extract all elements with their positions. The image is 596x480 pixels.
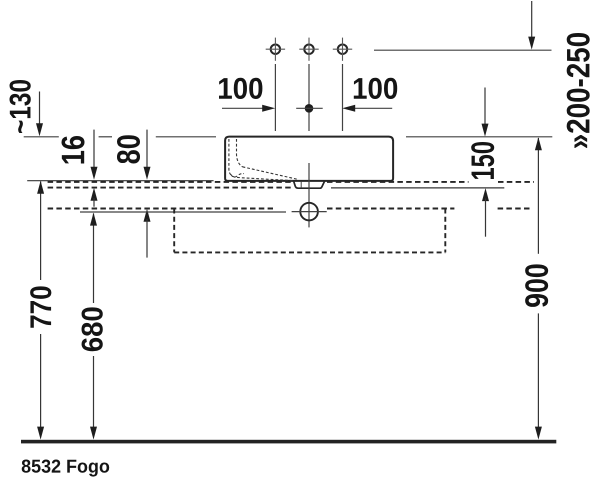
tap hole circle 2	[299, 38, 318, 61]
basin inner wall dashed inner	[237, 139, 243, 167]
dimension 150 upper arrow	[482, 124, 489, 137]
dimension 80 line	[146, 130, 148, 168]
label 100 right	[354, 78, 397, 99]
dimension 16 lower tail	[93, 198, 95, 207]
dimension 900 up arrow	[535, 137, 542, 150]
basin floor slope upper dashed	[243, 167, 298, 179]
hidden drawer dashed rect left edge	[173, 209, 175, 253]
rim level line seg1	[24, 136, 59, 138]
label 900	[525, 264, 548, 307]
rim level line seg4	[406, 136, 552, 138]
basin floor slope lower dashed	[231, 174, 244, 178]
label 680	[82, 307, 103, 351]
dimension 900 line upper	[537, 138, 539, 254]
rim level line seg3	[156, 136, 216, 138]
dimension 770 up arrow	[37, 181, 44, 194]
hidden drawer dashed rect right edge	[444, 209, 446, 253]
dimension 100 left line	[222, 107, 265, 109]
dimension 80 lower tail	[146, 219, 148, 258]
dimension 16 down arrow	[91, 167, 98, 180]
hidden edge dashed line E left	[48, 187, 293, 189]
dimension 80 down arrow	[144, 167, 151, 180]
dimension 100 right line	[353, 107, 393, 109]
dimension 80 up arrow	[144, 209, 151, 222]
dimension 16 line	[93, 130, 95, 168]
hidden edge dashed line F seg3	[498, 208, 532, 210]
hidden edge dashed line C right end	[498, 181, 534, 183]
faucet height line	[374, 49, 552, 51]
floor line	[21, 440, 556, 444]
basin outline	[225, 137, 393, 181]
basin drain boss	[294, 181, 325, 188]
hidden edge dashed line F seg1	[48, 208, 273, 210]
title 8532 Fogo	[22, 460, 110, 477]
extension line mid tap	[308, 64, 310, 131]
drain circle	[300, 203, 318, 221]
dimension 770 down arrow	[37, 427, 44, 440]
label 200-250	[567, 33, 590, 148]
dimension 150 lower arrow	[482, 188, 489, 201]
dimension 16 up arrow	[91, 188, 98, 201]
hidden drawer dashed rect bottom edge	[174, 251, 445, 253]
dimension 200-250 vertical line	[531, 1, 533, 38]
dimension 900 down arrow	[535, 427, 542, 440]
label 770	[30, 286, 51, 327]
hidden edge dashed line F seg2	[327, 208, 454, 210]
dimension 200-250 arrow	[528, 37, 535, 50]
dimension 100 left arrow	[262, 105, 275, 112]
basin drain seam	[300, 182, 302, 188]
hidden edge dashed line C right	[327, 181, 469, 183]
hidden edge dashed line C	[48, 181, 292, 183]
extension line right tap	[342, 64, 344, 131]
label 100 left	[219, 78, 262, 99]
dimension 150 lower tail	[485, 199, 487, 237]
label 80	[117, 135, 140, 163]
dimension ~130 arrow	[36, 123, 43, 136]
label 16	[61, 136, 84, 164]
dimension 680 line lower	[93, 356, 95, 432]
dimension 680 line upper	[93, 214, 95, 304]
extension line left tap	[274, 64, 276, 131]
dimension 770 line lower	[40, 334, 42, 432]
dimension 680 up arrow	[90, 213, 97, 226]
dimension 150 upper line	[484, 88, 486, 127]
console top solid line	[27, 180, 213, 182]
drain center line	[308, 163, 310, 227]
dimension ~130 line	[39, 92, 41, 126]
dimension 770 line upper	[40, 182, 42, 281]
tap hole circle 1	[266, 38, 285, 61]
label 150	[471, 142, 494, 179]
dimension 100 right arrow	[342, 105, 355, 112]
visible edge solid line E right	[331, 187, 504, 189]
rim level line seg2	[99, 136, 112, 138]
center dot crossline	[296, 107, 323, 109]
label ~130	[10, 80, 31, 133]
dimension 680 down arrow	[90, 427, 97, 440]
tap hole circle 3	[333, 38, 352, 61]
dimension 900 line lower	[537, 313, 539, 432]
center dot node	[305, 104, 314, 113]
basin inner wall dashed outer	[229, 139, 295, 181]
drain circle crossline	[292, 211, 327, 213]
siphon level thin line	[80, 211, 286, 213]
